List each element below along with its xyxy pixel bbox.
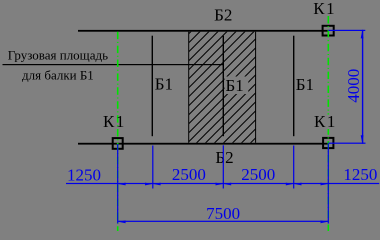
column K1 square bottom-left	[113, 138, 123, 149]
blue extension line below beam 3	[293, 146, 294, 189]
blue extension line below beam 2	[223, 145, 224, 188]
mask for label B1 #2	[225, 77, 249, 95]
blue extension line below beam 1	[152, 146, 153, 189]
svg-text:для балки Б1: для балки Б1	[22, 67, 94, 82]
lower dimension line 1250/2500/2500/1250	[66, 183, 379, 184]
svg-text:Б1: Б1	[296, 75, 314, 94]
svg-text:Б2: Б2	[215, 148, 233, 167]
svg-text:Грузовая площадь: Грузовая площадь	[8, 48, 108, 63]
4000 extension line top	[328, 30, 365, 31]
girder B2 top chord	[78, 30, 328, 32]
hatch area right border	[255, 32, 256, 143]
svg-text:К1: К1	[314, 112, 337, 131]
hatched tributary area	[189, 32, 256, 143]
girder B2 bottom chord	[78, 143, 328, 145]
leader line from callout text to middle beam	[3, 64, 224, 65]
beam B1 line 1	[152, 36, 153, 137]
green column axis left (dash-dot)	[117, 32, 119, 231]
svg-text:7500: 7500	[206, 204, 240, 223]
column K1 square bottom-right	[323, 138, 333, 148]
green column axis right (dash-dot)	[327, 16, 329, 231]
mask for label K1 bottom-right	[313, 115, 338, 130]
beam B1 line 3	[293, 36, 294, 137]
arrow at left column (1250 span)	[118, 183, 125, 186]
beam B1 line 2 (middle)	[223, 36, 224, 137]
svg-text:2500: 2500	[172, 165, 206, 184]
arrows at beam 2	[216, 183, 223, 186]
svg-text:4000: 4000	[344, 69, 363, 103]
mask for label K1 top-right	[312, 1, 337, 16]
arrows at beam 1	[145, 183, 152, 186]
7500 dimension line	[118, 221, 329, 222]
column K1 square top-right	[323, 26, 334, 36]
blue extension line below left column	[117, 144, 118, 224]
arrows at beam 3	[286, 183, 293, 186]
svg-text:2500: 2500	[241, 165, 275, 184]
blue extension line below right column	[328, 144, 329, 224]
4000 extension line bottom	[328, 143, 365, 144]
arrows of 7500 dimension	[118, 220, 125, 223]
svg-text:К1: К1	[313, 0, 336, 18]
svg-text:1250: 1250	[343, 165, 377, 184]
svg-text:Б1: Б1	[155, 75, 173, 94]
svg-text:Б2: Б2	[214, 5, 232, 24]
svg-text:1250: 1250	[67, 165, 101, 184]
svg-text:К1: К1	[103, 112, 126, 131]
arrow at right column (1250 span)	[321, 183, 328, 186]
hatch area left border	[188, 32, 189, 143]
svg-text:Б1: Б1	[226, 76, 244, 95]
4000 dimension line	[362, 30, 363, 144]
arrows of 4000 dimension	[361, 31, 364, 38]
